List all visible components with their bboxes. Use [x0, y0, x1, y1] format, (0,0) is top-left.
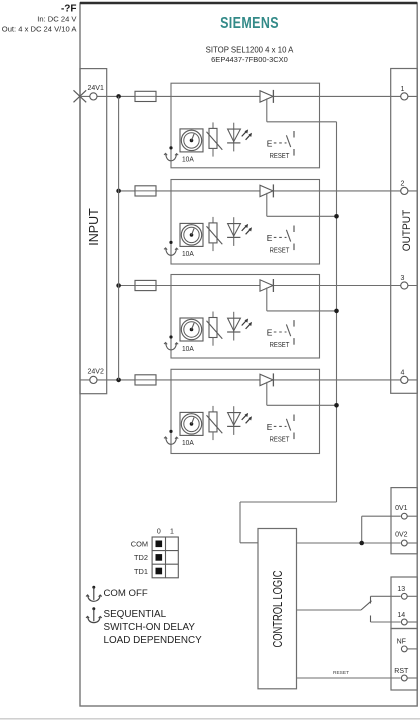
svg-text:1: 1	[401, 86, 405, 93]
svg-text:OUTPUT: OUTPUT	[401, 209, 414, 251]
svg-text:0V1: 0V1	[395, 505, 408, 512]
svg-text:In: DC 24 V: In: DC 24 V	[37, 15, 77, 24]
svg-text:6EP4437-7FB00-3CX0: 6EP4437-7FB00-3CX0	[211, 55, 288, 64]
svg-text:RESET: RESET	[333, 670, 349, 676]
svg-text:E: E	[267, 422, 273, 432]
svg-text:SIEMENS: SIEMENS	[220, 15, 279, 33]
svg-text:10A: 10A	[182, 344, 195, 353]
svg-text:-?F: -?F	[61, 4, 77, 15]
svg-text:24V2: 24V2	[88, 368, 104, 375]
svg-text:INPUT: INPUT	[87, 208, 101, 246]
svg-text:24V1: 24V1	[88, 85, 104, 92]
svg-text:0: 0	[157, 529, 161, 536]
svg-text:RESET: RESET	[270, 434, 290, 443]
svg-text:10A: 10A	[182, 155, 195, 164]
svg-text:RESET: RESET	[270, 151, 290, 160]
svg-text:CONTROL LOGIC: CONTROL LOGIC	[272, 570, 286, 647]
svg-text:E: E	[267, 233, 273, 243]
svg-text:TD1: TD1	[134, 567, 148, 576]
svg-text:Out: 4 x DC 24 V/10 A: Out: 4 x DC 24 V/10 A	[2, 25, 78, 34]
svg-text:RESET: RESET	[270, 340, 290, 349]
svg-text:E: E	[267, 138, 273, 148]
svg-text:COM OFF: COM OFF	[104, 588, 148, 599]
svg-text:1: 1	[170, 529, 174, 536]
svg-text:SWITCH-ON DELAY: SWITCH-ON DELAY	[104, 622, 196, 633]
svg-text:14: 14	[397, 612, 405, 619]
svg-text:10A: 10A	[182, 249, 195, 258]
svg-text:NF: NF	[397, 639, 406, 646]
svg-text:2: 2	[401, 180, 405, 187]
svg-text:SITOP SEL1200 4 x 10 A: SITOP SEL1200 4 x 10 A	[206, 46, 295, 55]
svg-text:13: 13	[397, 586, 405, 593]
svg-text:10A: 10A	[182, 438, 195, 447]
svg-text:E: E	[267, 328, 273, 338]
svg-text:3: 3	[401, 275, 405, 282]
svg-text:TD2: TD2	[134, 553, 148, 562]
svg-text:RST: RST	[394, 668, 409, 675]
svg-text:LOAD DEPENDENCY: LOAD DEPENDENCY	[104, 635, 203, 646]
svg-text:COM: COM	[131, 540, 148, 549]
svg-text:RESET: RESET	[270, 245, 290, 254]
svg-text:4: 4	[401, 369, 405, 376]
svg-text:0V2: 0V2	[395, 532, 408, 539]
svg-text:SEQUENTIAL: SEQUENTIAL	[104, 609, 167, 620]
